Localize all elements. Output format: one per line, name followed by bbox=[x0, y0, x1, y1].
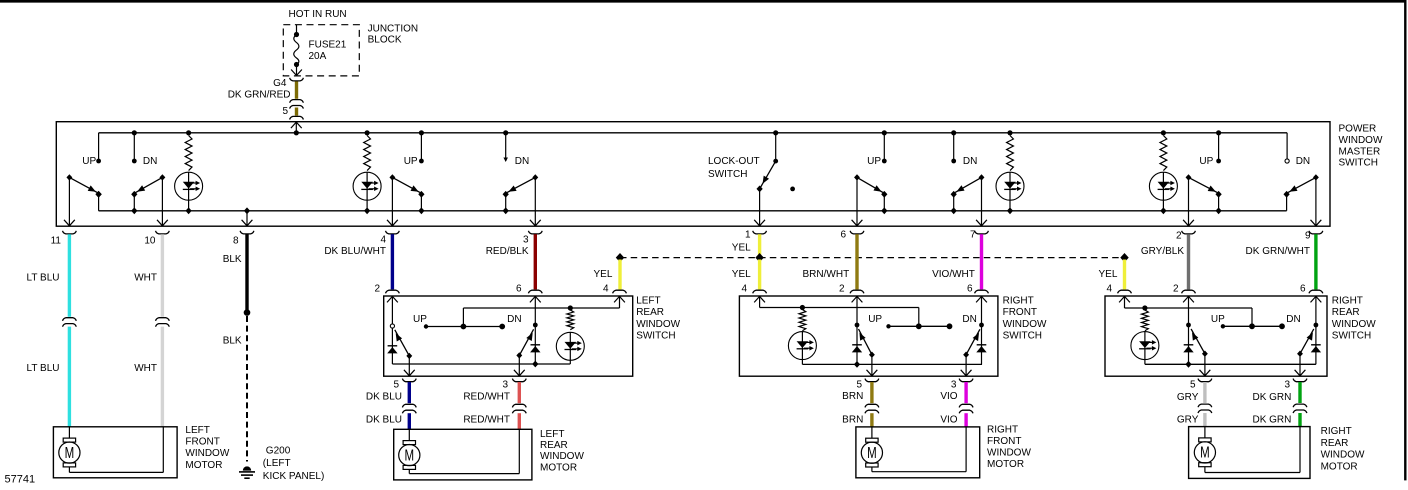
svg-text:REAR: REAR bbox=[1332, 307, 1360, 318]
right rear window switch pin 4 entry arrow bbox=[1119, 296, 1130, 302]
right rear window switch box bbox=[1105, 296, 1327, 376]
svg-text:2: 2 bbox=[839, 284, 845, 295]
in-line connector WHT bbox=[156, 318, 170, 327]
svg-text:MOTOR: MOTOR bbox=[185, 460, 222, 471]
right front master switch DN switch arm bbox=[951, 174, 985, 198]
diagram number 57741 bbox=[5, 473, 36, 485]
wire BLK dashed to ground bbox=[246, 316, 248, 462]
svg-text:HOT IN RUN: HOT IN RUN bbox=[289, 9, 347, 20]
right front master switch UP pole wire to pin bbox=[852, 177, 863, 226]
svg-text:3: 3 bbox=[1284, 380, 1290, 391]
label UP (left rear master switch) bbox=[404, 156, 418, 167]
svg-text:11: 11 bbox=[51, 235, 62, 246]
wire BRN/WHT (pin 6) bbox=[855, 234, 858, 289]
LR motor return path bbox=[409, 429, 519, 473]
label pin 11 bbox=[51, 235, 62, 246]
label YEL (below splice) bbox=[732, 269, 751, 280]
label pin 2 bbox=[1176, 231, 1182, 242]
svg-text:6: 6 bbox=[840, 230, 846, 241]
label DN (right rear master) bbox=[1296, 156, 1310, 167]
svg-text:REAR: REAR bbox=[540, 440, 568, 451]
svg-text:BLK: BLK bbox=[223, 254, 242, 265]
ground bus left riser bbox=[95, 191, 101, 211]
connector LR pin 5 (cup) bbox=[402, 379, 416, 382]
left rear window switch pin 6 entry arrow bbox=[530, 296, 541, 302]
fuse F21 element bbox=[291, 25, 302, 76]
label LEFT FRONT WINDOW MOTOR bbox=[185, 425, 229, 471]
svg-text:LT BLU: LT BLU bbox=[27, 273, 60, 284]
in-line connector GRY bbox=[1198, 404, 1212, 413]
resistor R4 bbox=[1160, 130, 1167, 170]
label DK BLU (lower) bbox=[366, 415, 402, 426]
svg-text:UP: UP bbox=[867, 156, 881, 167]
connector RR pin 5 (cup) bbox=[1198, 379, 1212, 382]
label left rear window switch bbox=[636, 296, 680, 342]
in-line connector LT BLU bbox=[63, 318, 77, 327]
right front window switch box bbox=[739, 296, 998, 376]
left rear master switch DN contact feed bbox=[503, 130, 508, 162]
connector right front window switch pin 6 (cap) bbox=[975, 290, 989, 293]
svg-text:M: M bbox=[1200, 443, 1210, 461]
svg-text:LEFT: LEFT bbox=[185, 425, 209, 436]
LR bottom bus bbox=[392, 363, 570, 365]
left rear window motor box bbox=[394, 429, 532, 480]
svg-text:REAR: REAR bbox=[1321, 438, 1349, 449]
connector left rear window switch pin 2 (cap) bbox=[386, 290, 400, 293]
label LEFT REAR WINDOW MOTOR bbox=[540, 429, 584, 474]
connector left rear window switch pin 4 (cap) bbox=[613, 290, 627, 293]
right front master switch UP switch arm bbox=[854, 174, 887, 198]
resistor R7 (RR) bbox=[1142, 310, 1149, 331]
left rear window switch pin 2 entry arrow bbox=[387, 296, 398, 302]
svg-text:DK BLU: DK BLU bbox=[366, 415, 402, 426]
connector master pin 9 (cup) bbox=[1309, 231, 1323, 234]
RR feed junction bbox=[1142, 305, 1147, 310]
left front switch DN contact feed bbox=[132, 130, 137, 163]
svg-text:UP: UP bbox=[1199, 156, 1213, 167]
LED D7 (LR) bbox=[556, 332, 584, 364]
RR rocker feed from pin 4 bbox=[1125, 296, 1253, 326]
splice diamond right bbox=[1120, 253, 1128, 262]
right rear master switch UP contact feed bbox=[1216, 130, 1221, 163]
label DN (RR) bbox=[1286, 314, 1300, 325]
svg-text:WINDOW: WINDOW bbox=[1332, 319, 1376, 330]
svg-text:WINDOW: WINDOW bbox=[987, 448, 1031, 459]
lock-out wire to pin 1 bbox=[754, 189, 765, 226]
right rear master DN switch arm bbox=[1287, 174, 1318, 193]
LED D4 (illumination) bbox=[1149, 172, 1177, 214]
svg-text:DK BLU/WHT: DK BLU/WHT bbox=[324, 246, 386, 257]
RR diode D11 bbox=[1183, 327, 1193, 368]
LR rocker bar bbox=[424, 324, 505, 330]
label pin 5 bbox=[282, 106, 288, 117]
connector right rear window switch pin 6 (cap) bbox=[1309, 290, 1323, 293]
svg-text:5: 5 bbox=[393, 379, 399, 390]
left rear master switch DN pole wire to pin bbox=[530, 177, 541, 226]
svg-text:DN: DN bbox=[507, 314, 521, 325]
wire BLK solid (pin 8) bbox=[245, 234, 248, 310]
label VIO (upper) bbox=[940, 391, 957, 402]
label VIO (lower) bbox=[940, 415, 957, 426]
svg-text:20A: 20A bbox=[309, 51, 327, 62]
right front window switch pin 6 entry arrow bbox=[976, 296, 987, 302]
svg-text:UP: UP bbox=[413, 314, 427, 325]
label BRN (lower) bbox=[842, 415, 863, 426]
right front master switch DN pole wire to pin bbox=[976, 177, 987, 226]
LED D1 (illumination) bbox=[175, 172, 203, 214]
label RF pin 5 bbox=[856, 379, 862, 390]
connector right front window switch pin 2 (cap) bbox=[850, 290, 864, 293]
LED D13 (RR) bbox=[1131, 332, 1159, 365]
wire YEL (right splice to RR pin 4) bbox=[1123, 260, 1126, 290]
svg-text:YEL: YEL bbox=[593, 269, 612, 280]
label FUSE21 20A bbox=[309, 40, 347, 63]
svg-text:BLOCK: BLOCK bbox=[368, 35, 402, 46]
wire VIO upper bbox=[964, 382, 967, 403]
svg-text:FUSE21: FUSE21 bbox=[309, 40, 347, 51]
svg-text:WHT: WHT bbox=[134, 363, 157, 374]
RF rocker feed from pin 4 bbox=[760, 296, 919, 326]
svg-text:BLK: BLK bbox=[223, 336, 242, 347]
in-line connector DK BLU bbox=[402, 404, 416, 413]
svg-text:WINDOW: WINDOW bbox=[540, 451, 584, 462]
left front switch DN pole wire to pin bbox=[157, 177, 168, 226]
svg-text:RED/BLK: RED/BLK bbox=[486, 246, 529, 257]
label pin 1 bbox=[745, 230, 751, 241]
RF feed junction bbox=[800, 305, 805, 310]
LED D2 (illumination) bbox=[353, 172, 381, 214]
wire DK BLU/WHT (pin 4) bbox=[391, 234, 394, 289]
left front window motor box bbox=[53, 427, 177, 478]
label right front window switch pin 4 bbox=[741, 284, 747, 295]
svg-text:POWER: POWER bbox=[1339, 123, 1377, 134]
label DK GRN (lower) bbox=[1252, 415, 1291, 426]
label UP (RF) bbox=[868, 314, 882, 325]
svg-text:6: 6 bbox=[516, 284, 522, 295]
svg-text:4: 4 bbox=[1106, 284, 1112, 295]
connector master pin 2 (cup) bbox=[1182, 231, 1196, 234]
svg-text:3: 3 bbox=[502, 379, 508, 390]
LR pin 3 wire bbox=[514, 355, 525, 376]
label LOCK-OUT SWITCH bbox=[708, 156, 760, 180]
svg-text:MOTOR: MOTOR bbox=[987, 459, 1024, 470]
right rear master switch UP switch arm bbox=[1186, 174, 1222, 198]
wire DK BLU upper bbox=[408, 382, 411, 403]
svg-text:VIO/WHT: VIO/WHT bbox=[932, 269, 975, 280]
svg-text:WINDOW: WINDOW bbox=[1339, 135, 1383, 146]
svg-text:1: 1 bbox=[745, 230, 751, 241]
svg-text:UP: UP bbox=[1211, 314, 1225, 325]
left rear window switch pin 4 entry arrow bbox=[614, 296, 625, 302]
left front switch DN switch arm bbox=[131, 174, 165, 198]
svg-text:UP: UP bbox=[868, 314, 882, 325]
label right rear window switch pin 6 bbox=[1300, 284, 1306, 295]
wire BRN upper bbox=[870, 382, 873, 403]
lock-out switch bbox=[756, 130, 778, 192]
svg-text:LEFT: LEFT bbox=[636, 296, 660, 307]
wire GRY upper bbox=[1203, 382, 1206, 403]
label right rear window switch bbox=[1332, 296, 1376, 342]
page border right bbox=[1404, 0, 1406, 480]
connector master pin 10 (cup) bbox=[156, 231, 170, 234]
svg-text:WHT: WHT bbox=[134, 273, 157, 284]
in-line connector VIO bbox=[959, 404, 973, 413]
label UP (LR) bbox=[413, 314, 427, 325]
left rear master switch UP pole wire to pin bbox=[387, 177, 398, 226]
label DN (LR) bbox=[507, 314, 521, 325]
wire YEL (splice to RF pin 4) bbox=[758, 260, 761, 290]
RF diode D9 bbox=[976, 327, 986, 364]
label pin 4 bbox=[380, 234, 386, 245]
RR bottom bus bbox=[1145, 363, 1316, 365]
label RIGHT FRONT WINDOW MOTOR bbox=[987, 425, 1031, 471]
RR DN armature bbox=[1297, 329, 1314, 357]
svg-text:SWITCH: SWITCH bbox=[1332, 330, 1371, 341]
svg-text:9: 9 bbox=[1305, 231, 1311, 242]
label GRY (lower) bbox=[1177, 415, 1199, 426]
page border top bbox=[0, 0, 1407, 3]
svg-text:3: 3 bbox=[951, 379, 957, 390]
wire VIO/WHT (pin 7) bbox=[980, 234, 983, 289]
svg-text:G4: G4 bbox=[273, 78, 287, 89]
RF pin6 feed to contact bbox=[979, 296, 984, 327]
right front window motor box bbox=[856, 427, 980, 478]
label right front window switch bbox=[1003, 296, 1047, 342]
LR rocker feed from pin 4 bbox=[463, 296, 619, 327]
svg-text:DN: DN bbox=[1286, 314, 1300, 325]
resistor R6 (RF) bbox=[799, 310, 806, 331]
svg-text:5: 5 bbox=[1190, 380, 1196, 391]
label BLK (lower) bbox=[223, 336, 242, 347]
RR pin 5 wire bbox=[1200, 354, 1211, 377]
power window master switch box bbox=[56, 122, 1330, 227]
svg-text:4: 4 bbox=[741, 284, 747, 295]
wire DK GRN/RED upper segment bbox=[295, 81, 298, 98]
svg-text:(LEFT: (LEFT bbox=[263, 458, 291, 469]
svg-text:5: 5 bbox=[282, 106, 288, 117]
label RED/BLK bbox=[486, 246, 529, 257]
svg-text:RED/WHT: RED/WHT bbox=[463, 391, 510, 402]
LR UP armature bbox=[395, 330, 412, 359]
ground bus right riser bbox=[1283, 191, 1289, 211]
splice diamond left bbox=[616, 253, 624, 262]
RF motor return path bbox=[872, 427, 966, 472]
svg-text:VIO: VIO bbox=[940, 391, 957, 402]
RF DN armature bbox=[963, 329, 980, 358]
svg-text:RIGHT: RIGHT bbox=[1003, 296, 1034, 307]
LED D10 (RF) bbox=[788, 332, 816, 365]
right rear window motor box bbox=[1189, 427, 1310, 479]
svg-text:WINDOW: WINDOW bbox=[185, 448, 229, 459]
top bus right drop to DN contact bbox=[1285, 133, 1289, 163]
svg-text:SWITCH: SWITCH bbox=[1003, 330, 1042, 341]
label DK BLU/WHT bbox=[324, 246, 386, 257]
svg-text:REAR: REAR bbox=[636, 307, 664, 318]
label RED/WHT (upper) bbox=[463, 391, 510, 402]
top bus left drop to UP contact bbox=[96, 133, 101, 164]
svg-text:UP: UP bbox=[404, 156, 418, 167]
svg-text:7: 7 bbox=[970, 230, 976, 241]
RR pin6 feed to contact bbox=[1314, 296, 1319, 327]
left rear master switch DN arm to ground bus bbox=[503, 194, 509, 214]
connector RF pin 3 (cup) bbox=[959, 379, 973, 382]
svg-text:SWITCH: SWITCH bbox=[1339, 158, 1378, 169]
svg-text:G200: G200 bbox=[266, 445, 291, 456]
label RR pin 3 bbox=[1284, 380, 1290, 391]
LF motor return path bbox=[69, 427, 163, 473]
svg-text:6: 6 bbox=[967, 284, 973, 295]
label WHT (upper) bbox=[134, 273, 157, 284]
label UP (right rear master switch) bbox=[1199, 156, 1213, 167]
ground bus bbox=[99, 210, 1287, 212]
svg-text:LEFT: LEFT bbox=[540, 429, 564, 440]
ground G200 symbol bbox=[239, 466, 255, 478]
connector master pin 7 (cup) bbox=[975, 231, 989, 234]
label pin 3 bbox=[523, 234, 529, 245]
left front UP switch arm bbox=[66, 174, 101, 198]
RF pin2 feed to contact bbox=[855, 296, 860, 327]
RF bottom bus bbox=[802, 363, 982, 365]
label DK BLU (upper) bbox=[366, 391, 402, 402]
svg-text:MOTOR: MOTOR bbox=[540, 462, 577, 473]
label UP (left front) bbox=[82, 156, 96, 167]
svg-text:M: M bbox=[867, 443, 877, 461]
right front window switch pin 4 entry arrow bbox=[754, 296, 765, 302]
LED D3 (illumination) bbox=[996, 172, 1024, 214]
connector master pin 11 (cup) bbox=[63, 231, 77, 234]
label G200 (LEFT KICK PANEL) bbox=[263, 445, 325, 482]
wire RED/WHT lower bbox=[518, 413, 521, 429]
right rear master DN pole wire to pin 9 bbox=[1311, 177, 1322, 226]
label left rear window switch pin 6 bbox=[516, 284, 522, 295]
top bus (battery feed) bbox=[99, 132, 1288, 134]
LR pin 5 wire bbox=[404, 356, 415, 376]
label DN (left front switch) bbox=[143, 156, 157, 167]
svg-text:FRONT: FRONT bbox=[185, 437, 219, 448]
label RR pin 5 bbox=[1190, 380, 1196, 391]
label WHT (lower) bbox=[134, 363, 157, 374]
right rear window switch pin 2 entry arrow bbox=[1183, 296, 1194, 302]
label YEL (left) bbox=[593, 269, 612, 280]
svg-text:KICK PANEL): KICK PANEL) bbox=[263, 471, 325, 482]
svg-text:MASTER: MASTER bbox=[1339, 146, 1381, 157]
motor M3 (right front) bbox=[861, 427, 882, 467]
connector left rear window switch pin 6 (cap) bbox=[528, 290, 542, 293]
label DK GRN (upper) bbox=[1252, 392, 1291, 403]
right rear window switch pin 6 entry arrow bbox=[1311, 296, 1322, 302]
label right front window switch pin 6 bbox=[967, 284, 973, 295]
svg-text:DK BLU: DK BLU bbox=[366, 391, 402, 402]
RR pin 3 wire bbox=[1295, 354, 1306, 377]
resistor R1 bbox=[185, 130, 192, 170]
svg-text:M: M bbox=[65, 443, 75, 461]
label YEL (right) bbox=[1098, 269, 1117, 280]
LR pin6 feed to contact bbox=[533, 296, 538, 327]
svg-text:YEL: YEL bbox=[1098, 269, 1117, 280]
RF pin 5 wire bbox=[867, 355, 878, 377]
wire LT BLU lower bbox=[68, 327, 71, 427]
svg-text:FRONT: FRONT bbox=[1003, 307, 1037, 318]
label right front window switch pin 2 bbox=[839, 284, 845, 295]
RF diode D8 bbox=[852, 327, 862, 368]
svg-text:SWITCH: SWITCH bbox=[636, 330, 675, 341]
RF pin 3 wire bbox=[961, 355, 972, 377]
wire LT BLU upper (pin 11) bbox=[68, 234, 71, 317]
svg-text:DK GRN: DK GRN bbox=[1252, 415, 1291, 426]
svg-text:BRN/WHT: BRN/WHT bbox=[803, 269, 850, 280]
label GRY/BLK bbox=[1141, 246, 1184, 257]
wire WHT lower bbox=[161, 327, 164, 427]
svg-text:DK GRN/WHT: DK GRN/WHT bbox=[1246, 246, 1310, 257]
RR motor return path bbox=[1205, 427, 1300, 473]
label LR pin 3 bbox=[502, 379, 508, 390]
right front window switch pin 2 entry arrow bbox=[852, 296, 863, 302]
in-line connector DK GRN bbox=[1293, 404, 1307, 413]
label YEL (pin 1) bbox=[732, 242, 751, 253]
svg-text:RED/WHT: RED/WHT bbox=[463, 415, 510, 426]
svg-text:SWITCH: SWITCH bbox=[708, 169, 747, 180]
label LR pin 5 bbox=[393, 379, 399, 390]
connector right rear window switch pin 4 (cap) bbox=[1118, 290, 1132, 293]
wire RED/BLK (pin 3) bbox=[534, 234, 537, 289]
in-line connector on DK GRN/RED bbox=[290, 100, 304, 109]
label G4 bbox=[273, 78, 287, 89]
motor M2 (left rear) bbox=[399, 429, 420, 469]
label RED/WHT (lower) bbox=[463, 415, 510, 426]
svg-text:6: 6 bbox=[1300, 284, 1306, 295]
label UP (right front master switch) bbox=[867, 156, 881, 167]
svg-text:2: 2 bbox=[1176, 231, 1182, 242]
resistor R3 bbox=[1007, 130, 1014, 170]
svg-text:DK GRN/RED: DK GRN/RED bbox=[228, 90, 291, 101]
label DN (right front master switch) bbox=[963, 156, 977, 167]
svg-text:2: 2 bbox=[1173, 284, 1179, 295]
label BRN/WHT bbox=[803, 269, 850, 280]
right front master switch DN contact feed bbox=[951, 130, 956, 163]
connector master pin 4 (cup) bbox=[386, 231, 400, 234]
svg-text:WINDOW: WINDOW bbox=[1003, 319, 1047, 330]
label pin 10 bbox=[144, 235, 156, 246]
svg-text:DN: DN bbox=[962, 314, 976, 325]
svg-text:YEL: YEL bbox=[732, 269, 751, 280]
wire DK GRN upper bbox=[1298, 382, 1301, 403]
label RIGHT REAR WINDOW MOTOR bbox=[1321, 426, 1365, 472]
LR feed junction bbox=[568, 305, 573, 310]
svg-text:10: 10 bbox=[144, 235, 156, 246]
splice on BLK bbox=[244, 309, 251, 316]
svg-text:5: 5 bbox=[856, 379, 862, 390]
left rear master switch DN switch arm bbox=[503, 174, 539, 198]
svg-text:WINDOW: WINDOW bbox=[1321, 450, 1365, 461]
label LT BLU (lower) bbox=[27, 363, 60, 374]
junction block (dashed box) bbox=[283, 25, 359, 76]
right rear master switch UP pole wire to pin bbox=[1183, 177, 1194, 226]
svg-text:VIO: VIO bbox=[940, 415, 957, 426]
svg-text:GRY: GRY bbox=[1177, 415, 1199, 426]
svg-text:4: 4 bbox=[380, 234, 386, 245]
svg-text:LT BLU: LT BLU bbox=[27, 363, 60, 374]
label pin 9 bbox=[1305, 231, 1311, 242]
svg-text:DN: DN bbox=[515, 156, 529, 167]
svg-text:DN: DN bbox=[963, 156, 977, 167]
wire VIO lower bbox=[964, 413, 967, 427]
wire YEL (left splice to LR pin 4) bbox=[618, 260, 621, 290]
label DN (RF) bbox=[962, 314, 976, 325]
in-line connector BRN bbox=[865, 404, 879, 413]
label VIO/WHT bbox=[932, 269, 975, 280]
svg-text:FRONT: FRONT bbox=[987, 436, 1021, 447]
left rear window switch box bbox=[384, 296, 633, 376]
